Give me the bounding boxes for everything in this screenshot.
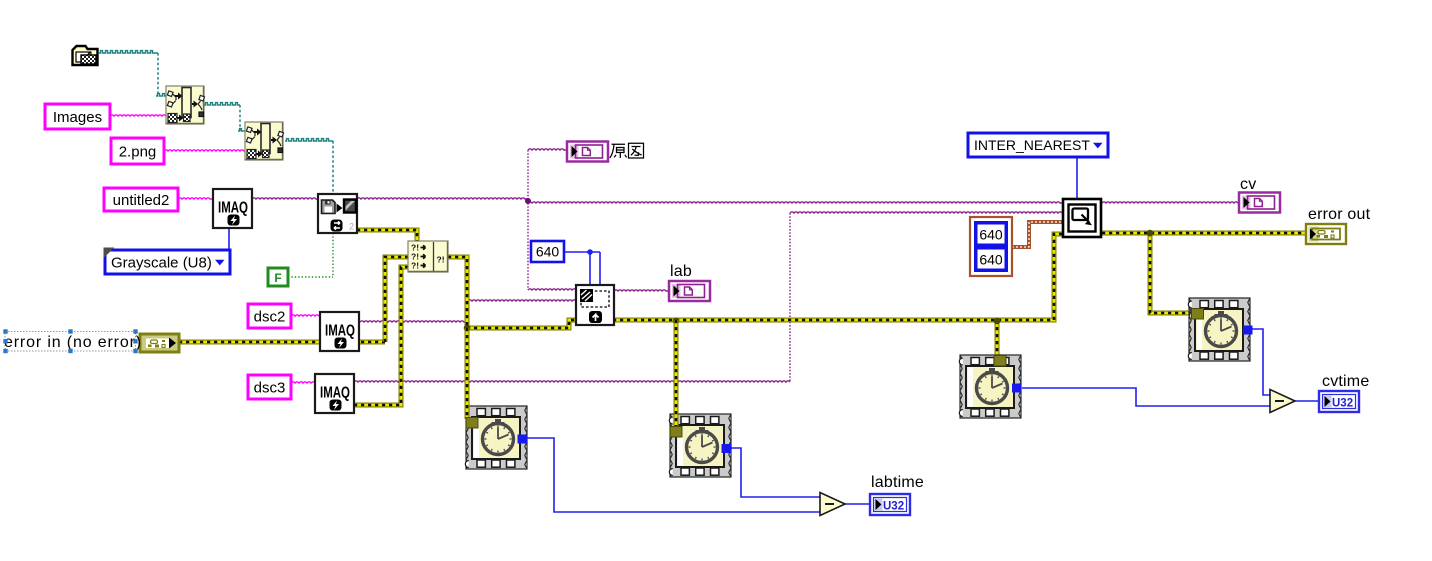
svg-text:?!: ?!	[437, 255, 445, 265]
svg-text:error in (no error): error in (no error)	[4, 334, 142, 351]
svg-text:Grayscale (U8): Grayscale (U8)	[111, 254, 212, 271]
svg-text:untitled2: untitled2	[113, 192, 170, 209]
svg-text:F: F	[274, 271, 281, 285]
svg-text:dsc2: dsc2	[254, 308, 286, 325]
svg-text:U32: U32	[883, 501, 904, 513]
svg-text:2: 2	[349, 222, 354, 232]
svg-text:labtime: labtime	[871, 474, 924, 491]
svg-text:IMAQ: IMAQ	[325, 323, 355, 340]
svg-text:dsc3: dsc3	[254, 379, 286, 396]
svg-text:IMAQ: IMAQ	[320, 385, 350, 402]
svg-text:640: 640	[979, 227, 1003, 243]
svg-text:cvtime: cvtime	[1322, 373, 1369, 390]
svg-text:cv: cv	[1240, 176, 1256, 193]
svg-text:2.png: 2.png	[119, 143, 157, 160]
svg-text:INTER_NEAREST: INTER_NEAREST	[974, 137, 1090, 153]
svg-text:lab: lab	[670, 263, 692, 280]
svg-text:?!: ?!	[411, 261, 419, 271]
svg-text:640: 640	[979, 252, 1003, 268]
svg-text:Images: Images	[53, 109, 102, 126]
svg-text:640: 640	[536, 244, 560, 260]
svg-text:error out: error out	[1308, 206, 1371, 223]
svg-text:IMAQ: IMAQ	[218, 200, 248, 217]
svg-text:U32: U32	[1332, 398, 1353, 410]
